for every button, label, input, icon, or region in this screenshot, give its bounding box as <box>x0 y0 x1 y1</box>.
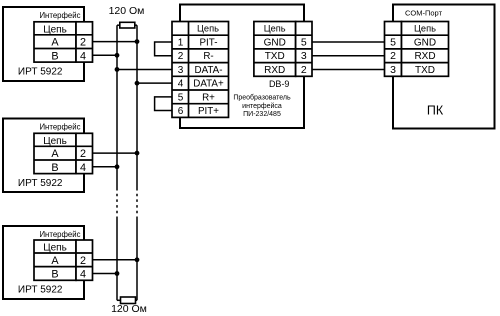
device U3 ИРТ 5922 block 3 <box>3 226 84 299</box>
wire R1 left stub <box>117 24 120 26</box>
connector table U1: Цепь / А:2 / В:4 <box>34 22 93 62</box>
svg-text:ПК: ПК <box>427 104 444 118</box>
svg-text:В: В <box>51 269 58 281</box>
resistor R1 120 Ом (top termination) <box>120 22 135 28</box>
svg-text:R-: R- <box>203 51 213 62</box>
svg-text:2: 2 <box>80 148 86 160</box>
connector table U4 RS-485 side (pins 1-6) <box>172 22 229 118</box>
svg-text:4: 4 <box>178 79 184 90</box>
wire DATA+ (pin 4) to bus A <box>137 82 172 84</box>
wire U1 pin4 B to bus B <box>93 54 118 56</box>
svg-text:DATA+: DATA+ <box>193 79 224 90</box>
resistor R2 120 Ом (bottom termination) <box>121 297 136 304</box>
svg-text:2: 2 <box>80 255 86 267</box>
wire jumper pins 5-6 (R+ to PIT+) <box>155 97 172 111</box>
svg-text:В: В <box>51 162 58 174</box>
node junction U1-B on bus B <box>115 53 120 58</box>
wire U3 pin4 B to bus B <box>93 273 118 275</box>
svg-text:ИРТ 5922: ИРТ 5922 <box>18 284 63 295</box>
svg-text:PIT-: PIT- <box>200 38 218 49</box>
node junction U2-A on bus A <box>135 151 140 156</box>
node junction U2-B on bus B <box>115 164 120 169</box>
svg-text:RXD: RXD <box>264 65 285 76</box>
wire bus B (left vertical line, net B) <box>116 25 118 300</box>
svg-text:COM-Порт: COM-Порт <box>405 9 443 18</box>
svg-text:Интерфейс: Интерфейс <box>39 230 80 239</box>
node junction DATA- on bus B <box>115 67 120 72</box>
svg-text:PIT+: PIT+ <box>198 106 219 117</box>
svg-text:4: 4 <box>80 269 86 281</box>
svg-text:2: 2 <box>178 51 184 62</box>
svg-text:5: 5 <box>178 92 184 103</box>
svg-text:ИРТ 5922: ИРТ 5922 <box>18 178 63 189</box>
svg-text:4: 4 <box>80 162 86 174</box>
svg-text:Цепь: Цепь <box>197 24 219 34</box>
node junction DATA+ on bus A <box>135 81 140 86</box>
node junction U3-A on bus A <box>135 257 140 262</box>
svg-text:Интерфейс: Интерфейс <box>39 11 80 20</box>
svg-text:Цепь: Цепь <box>264 24 286 34</box>
svg-text:Цепь: Цепь <box>43 136 67 147</box>
wire U1 pin2 A to bus A <box>93 41 138 43</box>
node junction U3-B on bus B <box>115 271 120 276</box>
wire U2 pin4 B to bus B <box>93 166 118 168</box>
wire bus A (right vertical line, net A) <box>136 25 138 300</box>
svg-text:120 Ом: 120 Ом <box>109 5 145 17</box>
svg-text:TXD: TXD <box>265 51 285 62</box>
connector table U3: Цепь / А:2 / В:4 <box>34 240 93 280</box>
svg-text:R+: R+ <box>202 92 215 103</box>
svg-text:6: 6 <box>178 106 184 117</box>
svg-text:3: 3 <box>301 50 307 62</box>
svg-text:RXD: RXD <box>414 51 435 62</box>
label Преобразователь интерфейса ПИ-232/485 <box>233 94 291 119</box>
svg-text:TXD: TXD <box>415 65 435 76</box>
connector table U5 COM port <box>385 22 449 77</box>
svg-text:А: А <box>51 255 59 267</box>
svg-text:Цепь: Цепь <box>43 24 67 35</box>
svg-text:4: 4 <box>80 50 86 62</box>
wire DATA- (pin 3) to bus B <box>117 68 172 70</box>
svg-text:3: 3 <box>178 65 184 76</box>
wire R2 left stub <box>117 299 121 301</box>
svg-text:Цепь: Цепь <box>414 24 436 34</box>
svg-text:5: 5 <box>390 37 396 49</box>
device U5 ПК (PC) block <box>393 5 495 129</box>
svg-text:А: А <box>51 37 59 49</box>
device U1 ИРТ 5922 block 1 <box>3 7 84 81</box>
svg-text:В: В <box>51 50 58 62</box>
svg-text:А: А <box>51 148 59 160</box>
wire U2 pin2 A to bus A <box>93 152 138 154</box>
device U2 ИРТ 5922 block 2 <box>3 119 84 193</box>
svg-text:Интерфейс: Интерфейс <box>39 123 80 132</box>
wire R1 right stub <box>135 24 137 26</box>
svg-text:Цепь: Цепь <box>43 243 67 254</box>
svg-text:1: 1 <box>178 38 184 49</box>
svg-text:2: 2 <box>301 64 307 76</box>
wire R2 right stub <box>136 299 138 301</box>
svg-text:GND: GND <box>264 38 286 49</box>
svg-text:5: 5 <box>301 37 307 49</box>
svg-text:3: 3 <box>390 64 396 76</box>
svg-text:GND: GND <box>414 38 436 49</box>
connector table U4 DB-9 side <box>254 22 312 77</box>
svg-text:ПИ-232/485: ПИ-232/485 <box>243 111 281 118</box>
wire U3 pin2 A to bus A <box>93 259 138 261</box>
svg-text:120 Ом: 120 Ом <box>111 303 147 315</box>
svg-text:DATA-: DATA- <box>195 65 223 76</box>
wire TXD-RXD (DB9 pin3 to PC pin2) <box>312 55 385 57</box>
svg-text:2: 2 <box>390 50 396 62</box>
connector table U2: Цепь / А:2 / В:4 <box>34 133 93 173</box>
wire jumper pins 1-2 (PIT- to R-) <box>155 42 172 56</box>
svg-text:DB-9: DB-9 <box>269 79 290 89</box>
wire GND (DB9 pin5 to PC pin5) <box>312 41 385 43</box>
node junction U1-A on bus A <box>135 39 140 44</box>
svg-text:интерфейса: интерфейса <box>242 102 282 110</box>
svg-text:2: 2 <box>80 37 86 49</box>
svg-text:Преобразователь: Преобразователь <box>233 94 291 102</box>
wire RXD-TXD (DB9 pin2 to PC pin3) <box>312 68 385 70</box>
converter U4 ПИ-232/485 outer block <box>180 5 304 129</box>
svg-text:ИРТ 5922: ИРТ 5922 <box>18 67 63 78</box>
